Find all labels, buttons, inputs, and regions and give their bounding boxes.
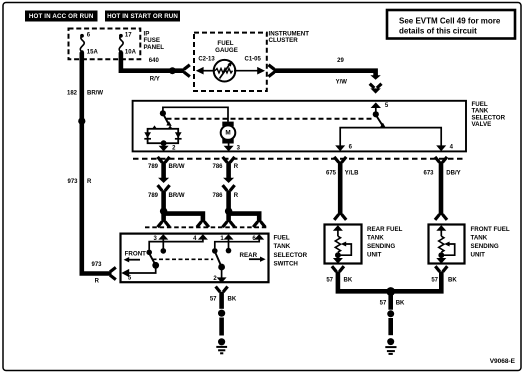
svg-text:BK: BK xyxy=(396,301,405,307)
svg-text:BR/W: BR/W xyxy=(169,164,185,170)
instrument cluster (dashed box) xyxy=(194,30,309,91)
svg-text:DB/Y: DB/Y xyxy=(446,171,460,177)
bell connector below front unit xyxy=(435,266,447,272)
contact arrows on bridge xyxy=(152,125,157,129)
rear fuel tank sending unit (box) xyxy=(325,225,403,264)
svg-text:REAR: REAR xyxy=(240,252,258,259)
svg-text:Y/W: Y/W xyxy=(336,80,348,86)
wire 57 BK front unit to junction xyxy=(391,271,442,291)
in-line connector on 786 xyxy=(223,178,235,191)
bell connector under pin 3 xyxy=(223,157,235,163)
svg-text:SENDING: SENDING xyxy=(471,243,499,250)
svg-text:C1-05: C1-05 xyxy=(245,56,262,62)
svg-text:10A: 10A xyxy=(125,49,137,55)
splice on 640 xyxy=(169,67,176,74)
wire 29 Y/W (cluster to valve pin 5) xyxy=(274,71,376,76)
svg-text:786: 786 xyxy=(212,193,223,199)
bell connector above switch pin 4 xyxy=(197,222,209,228)
svg-text:789: 789 xyxy=(148,164,159,170)
svg-text:C2-13: C2-13 xyxy=(198,56,215,62)
bell connector above rear unit xyxy=(334,214,346,220)
label 182 BR/W xyxy=(67,91,103,97)
wire 57 BK to ground G2 xyxy=(388,294,393,310)
bell connector above switch pin 1 xyxy=(223,222,235,228)
wire 789 BR/W (lower) xyxy=(161,190,166,212)
svg-text:details of this circuit: details of this circuit xyxy=(399,27,477,36)
front unit resistor xyxy=(439,236,444,252)
front fuel tank sending unit (box) xyxy=(429,225,510,264)
svg-text:SENDING: SENDING xyxy=(367,243,395,250)
fuse 6 15A xyxy=(80,33,98,56)
REAR label and arrow xyxy=(240,252,266,262)
svg-text:57: 57 xyxy=(210,297,217,303)
wire to ground xyxy=(388,318,393,335)
fuel gauge label xyxy=(215,40,238,54)
junction on 789 xyxy=(160,208,167,215)
valve pivot node xyxy=(373,111,379,117)
valve pin 2 (arrow down) xyxy=(159,143,177,151)
bell connector under pin 6 xyxy=(334,157,346,163)
svg-text:V9068-E: V9068-E xyxy=(490,358,516,365)
connector bell at cluster left xyxy=(184,65,190,77)
svg-text:SWITCH: SWITCH xyxy=(274,261,299,268)
svg-text:57: 57 xyxy=(380,301,387,307)
svg-text:BR/W: BR/W xyxy=(169,193,185,199)
switch pin 6 (arrow up, crossover) xyxy=(212,234,264,254)
valve pin 6 (arrow down) xyxy=(335,145,352,152)
label 29 Y/W xyxy=(336,58,348,86)
rear unit pin out (arrow down) xyxy=(333,255,343,263)
switch left lever xyxy=(150,255,156,266)
svg-text:FRONT FUEL: FRONT FUEL xyxy=(471,226,510,233)
svg-text:FUEL: FUEL xyxy=(274,235,290,242)
diode left xyxy=(144,132,151,139)
wire 789 BR/W (upper) xyxy=(161,162,166,179)
svg-text:HOT IN ACC OR RUN: HOT IN ACC OR RUN xyxy=(29,13,94,20)
svg-text:SELECTOR: SELECTOR xyxy=(274,252,308,259)
svg-text:GAUGE: GAUGE xyxy=(215,47,238,54)
label 973 R xyxy=(67,179,92,185)
fuel tank selector valve (box) xyxy=(133,101,506,152)
svg-text:973: 973 xyxy=(91,262,102,268)
fuel gauge (circle with needle and element) xyxy=(214,60,236,82)
connector (973 to switch pin 5, female bell) xyxy=(110,267,116,279)
splice on left 57 xyxy=(218,310,225,317)
wire 640 R/Y (fuse 17 to cluster) xyxy=(121,52,185,70)
switch pin 2 (arrow down) xyxy=(213,267,226,283)
fuse 17 10A xyxy=(119,33,137,56)
bridge output node xyxy=(161,140,167,146)
junction on 57 bus xyxy=(386,287,395,296)
in-line connector on 789 xyxy=(158,178,170,191)
bell connector above switch pin 3 xyxy=(158,222,170,228)
svg-text:See EVTM Cell 49 for more: See EVTM Cell 49 for more xyxy=(399,16,501,25)
svg-text:R: R xyxy=(95,279,100,285)
svg-text:PANEL: PANEL xyxy=(144,44,165,51)
front unit pin out (arrow down) xyxy=(436,255,446,263)
svg-text:57: 57 xyxy=(326,277,333,283)
svg-text:29: 29 xyxy=(337,58,344,64)
svg-text:R/Y: R/Y xyxy=(150,77,160,83)
label 640 R/Y xyxy=(149,58,160,83)
valve pin 3 (arrow down) xyxy=(224,144,241,152)
wire to ground G1 xyxy=(219,318,224,336)
bell connector under pin 2 xyxy=(158,157,170,163)
svg-text:VALVE: VALVE xyxy=(472,121,492,128)
svg-text:789: 789 xyxy=(148,193,159,199)
svg-text:M: M xyxy=(225,130,230,137)
valve pin 5 (arrow up) xyxy=(371,102,389,112)
power banner HOT IN START OR RUN xyxy=(105,11,180,22)
svg-text:BR/W: BR/W xyxy=(87,91,103,97)
valve selector lever xyxy=(377,117,386,128)
ground G1 xyxy=(216,338,227,353)
svg-text:REAR FUEL: REAR FUEL xyxy=(367,226,403,233)
wire 675 Y/LB xyxy=(338,162,343,216)
wire 786 R (lower) xyxy=(226,190,231,212)
wire 29 end arrow xyxy=(370,75,380,80)
valve pin 4 (arrow down) xyxy=(436,145,453,152)
wire 786 to switch pin 1 xyxy=(226,211,231,222)
svg-text:TANK: TANK xyxy=(367,234,384,241)
valve left pole: feed wire to motor xyxy=(163,107,228,122)
note box: See EVTM Cell 49 xyxy=(387,10,515,39)
svg-text:182: 182 xyxy=(67,91,78,97)
front unit pin (arrow up) xyxy=(436,225,446,236)
bell connector above switch pin 6 xyxy=(253,222,265,228)
front unit output node xyxy=(438,252,444,258)
ground G2 xyxy=(385,338,396,354)
wire 789 to switch pin 3 xyxy=(161,211,166,222)
rear unit wiper xyxy=(341,242,352,256)
connector dashed line below valve xyxy=(133,158,466,160)
switch right lever xyxy=(216,253,222,267)
svg-text:BK: BK xyxy=(228,297,237,303)
switch pin 5 (arrow left) xyxy=(121,265,155,281)
valve left pivot node xyxy=(160,110,166,116)
svg-text:R: R xyxy=(87,179,92,185)
branch 786 to switch pin 6 xyxy=(229,214,260,223)
switch pin 1 (arrow up) xyxy=(220,234,233,253)
svg-text:675: 675 xyxy=(326,171,337,177)
svg-text:R: R xyxy=(234,193,239,199)
wire 57 BK (from switch) xyxy=(219,292,224,309)
in-line connector pair on wire 29 xyxy=(370,84,382,94)
power banner HOT IN ACC OR RUN xyxy=(25,11,98,22)
svg-text:UNIT: UNIT xyxy=(367,251,382,258)
switch interior dashed line xyxy=(153,258,214,260)
svg-text:FUEL: FUEL xyxy=(217,40,233,47)
motor M xyxy=(221,122,236,144)
switch pin 3 (arrow up) xyxy=(154,234,169,254)
connector bell at cluster right xyxy=(269,65,275,77)
connector dashed line above switch xyxy=(145,226,269,228)
svg-text:673: 673 xyxy=(423,171,434,177)
gauge wire arrow left (into C2-13) xyxy=(196,67,215,75)
bell connector below rear unit xyxy=(332,266,344,272)
svg-text:57: 57 xyxy=(431,277,438,283)
diode right xyxy=(175,132,182,139)
rear unit resistor xyxy=(335,236,340,252)
wire 182 BR/W / 973 R (left vertical run) xyxy=(82,52,112,273)
svg-text:TANK: TANK xyxy=(471,234,488,241)
FRONT label and arrow xyxy=(124,251,147,263)
rear unit pin (arrow up) xyxy=(333,225,343,236)
wire 673 DB/Y xyxy=(439,162,444,216)
label 973 R (at corner) xyxy=(91,262,102,284)
switch pin 4 (arrow up, crossover) xyxy=(146,234,208,255)
bell connector under pin 4 xyxy=(435,157,447,163)
svg-text:15A: 15A xyxy=(87,49,99,55)
switch left pivot xyxy=(152,262,159,269)
bell connector above front unit xyxy=(435,214,447,220)
svg-text:TANK: TANK xyxy=(274,243,291,250)
svg-text:HOT IN START OR RUN: HOT IN START OR RUN xyxy=(107,13,178,20)
svg-text:786: 786 xyxy=(212,164,223,170)
front unit wiper xyxy=(444,242,455,256)
bell connector below switch pin 2 xyxy=(216,287,228,293)
IP fuse panel (dashed box) xyxy=(69,29,165,60)
svg-text:CLUSTER: CLUSTER xyxy=(269,37,299,44)
valve internal dashed line xyxy=(167,118,373,120)
splice S (182/973) xyxy=(78,118,85,125)
svg-text:17: 17 xyxy=(125,33,132,39)
wire 786 R (upper) xyxy=(226,162,231,179)
switch right pivot xyxy=(218,264,225,271)
gauge wire arrow right (into C1-05) xyxy=(234,67,265,75)
valve right-side wire (to pins 6 and 4) xyxy=(340,128,441,146)
rear unit output node xyxy=(335,252,341,258)
svg-text:R: R xyxy=(234,164,239,170)
junction on 786 xyxy=(225,208,232,215)
branch 789 to switch pin 4 xyxy=(164,214,203,223)
svg-text:640: 640 xyxy=(149,58,160,64)
svg-text:FRONT: FRONT xyxy=(125,251,147,258)
svg-text:BK: BK xyxy=(448,277,457,283)
svg-text:BK: BK xyxy=(344,277,353,283)
wire 57 BK rear unit to junction xyxy=(338,271,391,291)
svg-text:973: 973 xyxy=(67,179,78,185)
fuel tank selector switch (box) xyxy=(121,234,308,283)
splice on right 57 xyxy=(387,310,394,317)
svg-text:Y/LB: Y/LB xyxy=(345,171,359,177)
diode bridge frame xyxy=(148,129,179,143)
valve left lever xyxy=(164,116,172,126)
svg-text:UNIT: UNIT xyxy=(471,251,486,258)
